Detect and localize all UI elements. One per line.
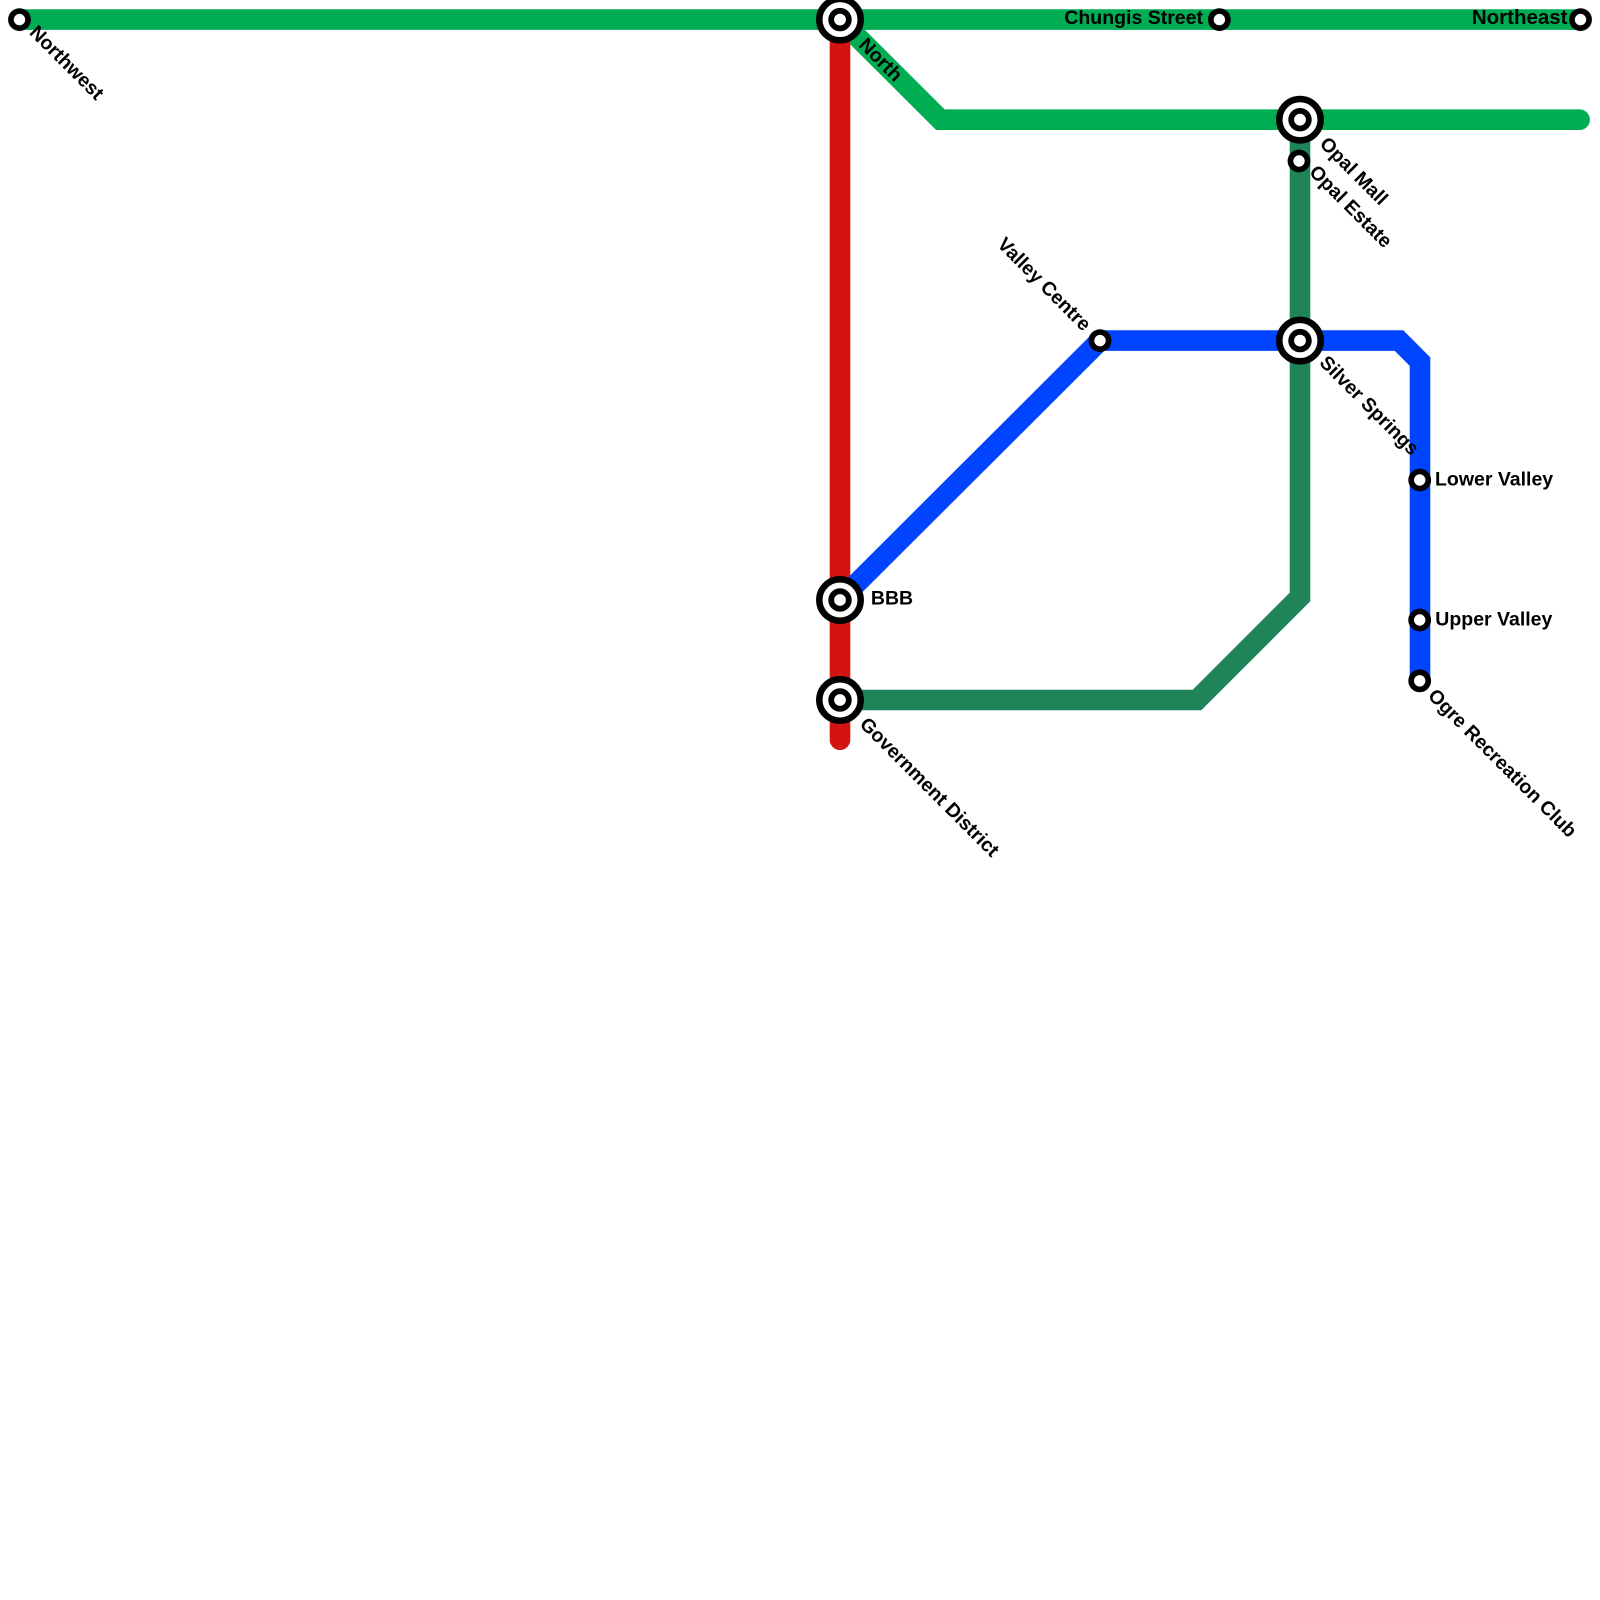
station Northwest: [11, 11, 28, 28]
station Valley Centre: [1091, 332, 1108, 349]
svg-text:Northeast: Northeast: [1472, 6, 1568, 29]
node BBB (interchange): [819, 579, 860, 620]
svg-text:Chungis Street: Chungis Street: [1064, 7, 1203, 29]
station Chungis Street: [1211, 11, 1228, 28]
wire blue line E: BBB via Valley Centre to Ogre Recreation Club: [840, 341, 1420, 681]
station Upper Valley: [1411, 611, 1428, 628]
wire green line A: Northwest to Northeast: [20, 9, 1581, 30]
svg-text:Upper Valley: Upper Valley: [1435, 609, 1552, 631]
svg-text:Lower Valley: Lower Valley: [1435, 469, 1553, 491]
wire green line B: North branch to east: [840, 20, 1580, 120]
svg-text:BBB: BBB: [871, 588, 913, 610]
node Opal Mall (interchange): [1279, 99, 1320, 140]
station Lower Valley: [1411, 471, 1428, 488]
station Northeast: [1572, 11, 1589, 28]
station Opal Estate: [1290, 152, 1307, 169]
wire dark green line C: Opal Mall to Government District: [840, 120, 1300, 700]
node North (interchange): [819, 0, 860, 40]
node Silver Springs (interchange): [1279, 320, 1320, 361]
wire red line D: North to south stub: [830, 20, 851, 740]
station Ogre Recreation Club: [1411, 672, 1428, 689]
node Government District (interchange): [819, 679, 860, 720]
